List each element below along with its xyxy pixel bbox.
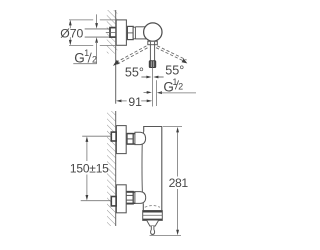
node escutcheon-top <box>116 20 126 45</box>
node boss-bottom <box>135 192 146 204</box>
svg-text:Ø70: Ø70 <box>60 27 83 41</box>
node outlet-nipple <box>151 226 155 235</box>
wire arrow-55-left <box>141 76 151 79</box>
node body-circle <box>144 23 162 41</box>
node fitting-front-top <box>111 132 116 141</box>
node dim-150 <box>70 136 111 201</box>
node escutcheon-front-bottom <box>116 185 126 213</box>
svg-text:2: 2 <box>178 82 183 92</box>
node collar <box>148 41 158 44</box>
svg-text:G: G <box>74 51 85 66</box>
node fitting-front-bottom <box>111 197 116 206</box>
node neck <box>135 27 146 39</box>
wall <box>107 10 118 104</box>
node body <box>142 127 162 211</box>
svg-text:281: 281 <box>169 176 189 190</box>
node nut-front-top <box>127 134 136 145</box>
node outlet-funnel <box>147 221 159 227</box>
wire dashed-left-55 <box>113 46 148 66</box>
node dim-dia70 <box>60 20 116 46</box>
svg-text:150±15: 150±15 <box>70 162 109 176</box>
svg-text:55°: 55° <box>125 65 144 79</box>
node dim-281 <box>150 127 189 236</box>
svg-text:2: 2 <box>92 55 97 65</box>
node fitting-top <box>106 28 116 37</box>
node dim-g12-left <box>73 14 98 65</box>
node adapter <box>133 27 135 39</box>
node outlet-ring <box>143 211 163 221</box>
node nut-top <box>127 26 133 39</box>
wall front <box>107 111 116 226</box>
node lever-shaft <box>150 42 154 61</box>
node nut-front-bottom <box>126 192 136 204</box>
svg-text:91: 91 <box>128 95 142 109</box>
wire arrow-55-right <box>153 76 163 79</box>
wire dashed-right-55 <box>156 46 187 64</box>
svg-text:1: 1 <box>84 48 89 58</box>
wire pipe-top-view <box>85 29 110 37</box>
wire ext-right <box>155 80 157 106</box>
wire hidden-passage <box>145 206 160 208</box>
node dim-91 <box>116 95 152 109</box>
node escutcheon-front-top <box>116 126 126 154</box>
node lever-grip <box>149 61 156 68</box>
node dim-g12-right <box>144 77 197 95</box>
svg-text:55°: 55° <box>165 63 184 77</box>
node boss-top <box>135 132 146 144</box>
wire centerline <box>151 68 153 107</box>
